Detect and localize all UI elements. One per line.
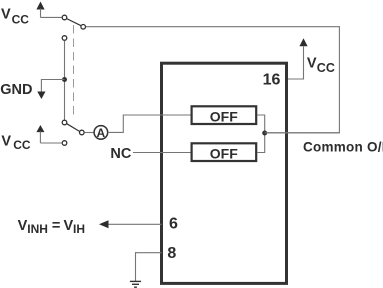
junction node common out/in xyxy=(262,131,267,136)
svg-text:V: V xyxy=(307,56,317,72)
switch S1 pole contact xyxy=(81,25,86,30)
svg-text:V: V xyxy=(18,218,28,234)
wire common node to right (crosses chip border) xyxy=(265,132,340,134)
svg-text:INH: INH xyxy=(27,222,48,236)
svg-text:OFF: OFF xyxy=(210,108,238,124)
svg-text:CC: CC xyxy=(12,12,30,26)
svg-text:6: 6 xyxy=(169,216,178,233)
wire S1 lower throw down to S2 upper throw xyxy=(64,41,66,120)
ground arrow (GND) xyxy=(37,92,45,100)
switch S1 lower throw contact xyxy=(62,36,67,41)
svg-text:8: 8 xyxy=(167,245,176,262)
power arrow VCC pin16 xyxy=(299,38,307,46)
dashed gang-coupling line of DPDT switch xyxy=(73,25,75,118)
svg-text:CC: CC xyxy=(317,61,335,75)
ammeter A xyxy=(94,126,108,140)
switch S1 throw contact (top, to VCC) xyxy=(62,15,67,20)
wire from S1 pole to top-right loop xyxy=(86,27,340,133)
svg-text:CC: CC xyxy=(13,138,31,152)
svg-text:16: 16 xyxy=(263,71,281,88)
switch element box OFF (upper) xyxy=(192,106,257,124)
wire NC to lower OFF switch xyxy=(133,152,191,154)
wire VCC-top to switch throw S1a xyxy=(41,16,62,18)
power arrow VCC bottom-left xyxy=(36,125,44,143)
chip U1 outline xyxy=(162,63,287,283)
label VCC top-left xyxy=(1,7,29,27)
junction node at GND tap xyxy=(62,77,67,82)
wire lower OFF box to common node xyxy=(257,135,264,153)
wire upper OFF box to common node xyxy=(257,115,264,131)
svg-text:V: V xyxy=(1,133,11,149)
svg-text:=: = xyxy=(52,218,60,234)
wire VCC-bottom to S2 lower throw xyxy=(40,142,62,144)
ground symbol xyxy=(130,281,141,287)
wire pin 8 to ground xyxy=(136,253,162,281)
svg-text:V: V xyxy=(1,7,11,23)
svg-text:A: A xyxy=(97,126,106,140)
svg-text:V: V xyxy=(64,218,74,234)
svg-text:GND: GND xyxy=(0,82,32,98)
label VCC pin16 xyxy=(307,56,335,75)
switch S2 pole contact xyxy=(80,130,85,135)
wire ammeter to chip common in/out pin xyxy=(108,115,191,132)
switch S2 lower throw contact xyxy=(62,141,67,146)
svg-text:Common O/I: Common O/I xyxy=(303,140,383,155)
switch S2 blade xyxy=(67,124,80,132)
arrow VINH (points left) xyxy=(99,220,109,228)
wire pin 6 to VINH xyxy=(108,223,162,225)
svg-text:OFF: OFF xyxy=(210,145,238,161)
wire S2 pole to ammeter xyxy=(84,132,93,134)
switch S1 blade xyxy=(67,19,81,26)
wire GND tap xyxy=(41,80,64,93)
power arrow VCC top-left xyxy=(36,2,44,18)
wire pin 16 to VCC xyxy=(288,47,304,80)
switch S2 upper throw contact xyxy=(62,120,67,125)
svg-text:IH: IH xyxy=(73,222,85,236)
label VCC bottom-left xyxy=(1,133,30,151)
label VINH = VIH xyxy=(18,218,85,236)
svg-text:NC: NC xyxy=(110,146,131,162)
switch element box OFF (lower) xyxy=(192,143,257,161)
